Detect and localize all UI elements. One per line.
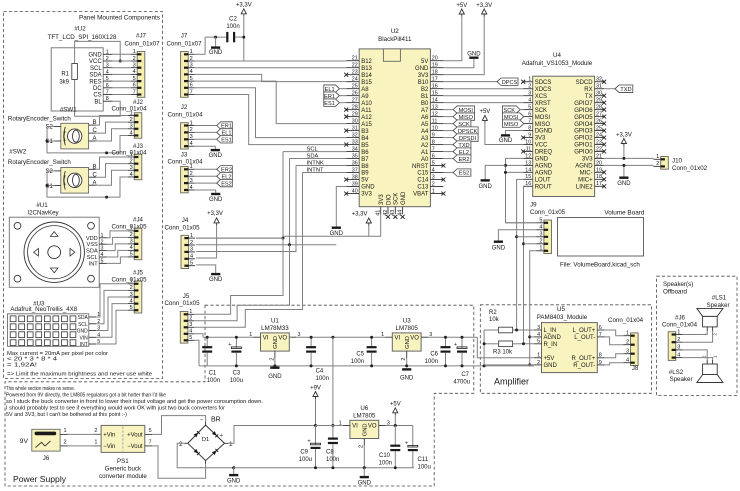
svg-text:3: 3	[190, 134, 193, 140]
svg-text:3: 3	[130, 165, 133, 171]
svg-text:22: 22	[596, 146, 602, 152]
svg-text:100u: 100u	[418, 464, 431, 470]
svg-text:A5: A5	[421, 122, 429, 128]
svg-text:D1: D1	[202, 437, 209, 443]
svg-text:SCL: SCL	[90, 66, 102, 72]
svg-text:100n: 100n	[226, 24, 239, 30]
svg-text:1: 1	[528, 77, 531, 83]
svg-text:R_OUT-: R_OUT-	[573, 363, 595, 369]
ground J4	[196, 265, 223, 283]
svg-text:+Vin: +Vin	[103, 433, 115, 439]
svg-text:8: 8	[599, 353, 602, 359]
svg-text:#SW2: #SW2	[9, 149, 26, 156]
wire INTNK drop	[196, 166, 296, 252]
junction R gnd	[483, 364, 486, 367]
svg-text:13: 13	[432, 105, 438, 111]
svg-text:16: 16	[525, 181, 531, 187]
svg-text:10: 10	[432, 126, 438, 132]
svg-text:C7: C7	[461, 372, 469, 378]
svg-text:TX: TX	[585, 94, 593, 100]
junction C5 bottom	[370, 364, 373, 367]
svg-text:32: 32	[596, 77, 602, 83]
svg-text:B5: B5	[361, 143, 369, 149]
svg-text:10: 10	[525, 139, 531, 145]
wire TFT to #J7	[113, 54, 131, 94]
svg-text:2: 2	[189, 316, 192, 322]
wire J7-2 3V3 rail	[195, 60, 347, 62]
svg-text:3: 3	[537, 325, 540, 331]
speaker #LS1	[697, 295, 730, 336]
svg-text:32: 32	[352, 132, 358, 138]
svg-text:12: 12	[432, 112, 438, 118]
svg-text:Conn_01x04: Conn_01x04	[662, 321, 698, 328]
wire INTNT drop	[302, 173, 304, 258]
note power section	[6, 386, 263, 418]
capacitor C7	[453, 337, 470, 385]
global label SCK U4	[502, 106, 523, 114]
wire R_OUT-	[605, 363, 624, 365]
svg-text:Power Supply: Power Supply	[13, 474, 67, 484]
wire R_OUT+	[605, 354, 624, 358]
wire 9V to PS1 p2	[68, 445, 102, 447]
global label ER2	[195, 166, 233, 174]
section box Speaker(s) Offboard	[657, 276, 738, 395]
svg-text:L_OUT+: L_OUT+	[572, 328, 595, 334]
svg-text:15: 15	[432, 91, 438, 97]
svg-text:20: 20	[596, 160, 602, 166]
svg-text:14: 14	[432, 98, 438, 104]
svg-text:2: 2	[656, 161, 659, 167]
svg-text:B14: B14	[361, 73, 372, 79]
svg-text:GPIO3: GPIO3	[574, 129, 593, 135]
svg-text:#U2: #U2	[74, 26, 86, 33]
wire SW2-C	[96, 164, 128, 178]
svg-text:2: 2	[190, 171, 193, 177]
junction C2 right	[242, 36, 245, 39]
svg-text:GND: GND	[405, 336, 411, 349]
svg-text:GPIO5: GPIO5	[574, 115, 593, 121]
svg-text:#J4: #J4	[133, 217, 144, 224]
svg-text:Conn_01x07: Conn_01x07	[166, 40, 202, 47]
svg-text:2: 2	[626, 340, 629, 346]
junction U4 agnd2	[504, 171, 507, 174]
junction SDA J4	[288, 243, 291, 246]
wire XDCS	[443, 88, 523, 90]
svg-text:3: 3	[130, 239, 133, 245]
svg-text:GND: GND	[273, 336, 279, 349]
svg-text:15: 15	[525, 174, 531, 180]
svg-text:VBAT: VBAT	[413, 192, 429, 198]
svg-text:SDA: SDA	[307, 153, 319, 159]
svg-text:+: +	[220, 433, 223, 439]
svg-text:2: 2	[64, 440, 67, 446]
svg-text:26: 26	[596, 118, 602, 124]
svg-text:4: 4	[106, 69, 109, 75]
wire 3V3 row link	[283, 235, 369, 237]
svg-text:+5V: +5V	[390, 402, 401, 408]
regulator U6 LM7805	[339, 405, 390, 448]
svg-text:4: 4	[626, 358, 629, 364]
wire 9V to PS1 p1	[68, 433, 102, 435]
svg-text:7: 7	[149, 440, 152, 446]
svg-text:29: 29	[352, 112, 358, 118]
svg-text:GND: GND	[209, 153, 223, 159]
junction C4 bottom	[310, 364, 313, 367]
svg-text:VI: VI	[352, 424, 358, 430]
svg-text:21: 21	[352, 56, 358, 62]
svg-text:7: 7	[190, 89, 193, 95]
rotary encoder #SW1	[8, 106, 98, 149]
microcontroller U2 BlackPill411	[344, 28, 445, 219]
ground near C2	[209, 37, 223, 56]
svg-text:Conn_01x02: Conn_01x02	[672, 165, 708, 172]
wire LS1 p1	[683, 331, 708, 335]
svg-text:SDA: SDA	[89, 73, 101, 79]
svg-text:ES2: ES2	[221, 181, 232, 187]
svg-text:MISO: MISO	[504, 122, 519, 128]
svg-text:GND: GND	[492, 245, 506, 251]
junction amp gnd	[528, 363, 531, 366]
svg-text:GPIO4: GPIO4	[574, 122, 593, 128]
svg-text:+5V: +5V	[456, 3, 467, 9]
global label ER2 U2	[443, 155, 471, 163]
svg-text:File: VolumeBoard.kicad_sch: File: VolumeBoard.kicad_sch	[560, 262, 640, 269]
svg-text:GND: GND	[268, 374, 282, 380]
capacitor C11	[405, 426, 431, 471]
svg-text:+Vout: +Vout	[127, 433, 143, 439]
junction J10 gnd	[622, 164, 625, 167]
wire PS1 -Vout to bridge	[152, 446, 205, 478]
svg-text:+5V: +5V	[479, 109, 490, 115]
wire 9V row	[316, 425, 343, 427]
svg-text:2: 2	[677, 337, 680, 343]
net label SDA	[290, 153, 347, 159]
svg-text:Offboard: Offboard	[663, 289, 688, 296]
svg-text:RX: RX	[584, 87, 592, 93]
wire U4 gnd bus	[506, 158, 537, 222]
junction C2 left	[214, 36, 217, 39]
svg-text:VCC: VCC	[89, 59, 102, 65]
wire 5V to amp	[477, 337, 534, 358]
svg-text:+3,3V: +3,3V	[476, 3, 492, 9]
net label INTNT	[303, 167, 347, 173]
svg-text:3: 3	[106, 63, 109, 69]
svg-text:GPIO1: GPIO1	[574, 143, 593, 149]
svg-text:Generic buck: Generic buck	[105, 465, 142, 472]
global label EL1 at U2	[324, 85, 346, 93]
audio decoder U4 Adafruit_VS1053_Module	[521, 52, 606, 197]
svg-text:4: 4	[189, 329, 192, 335]
svg-text:INTNK: INTNK	[307, 160, 325, 166]
wire LS2 p2	[683, 358, 713, 360]
svg-text:B15: B15	[361, 80, 372, 86]
svg-text:RotaryEncoder_Switch: RotaryEncoder_Switch	[8, 116, 71, 123]
wire PS1 +Vout to bridge	[152, 416, 205, 435]
svg-text:2: 2	[94, 428, 97, 434]
global label MOSI U2	[443, 106, 474, 114]
svg-text:J8: J8	[632, 365, 639, 372]
wire SW1 common	[47, 127, 128, 153]
wire J7-1 gnd riser	[195, 37, 205, 54]
wire SCL to J5	[195, 238, 283, 314]
svg-text:5V: 5V	[421, 59, 428, 65]
svg-text:Volume Board: Volume Board	[604, 210, 645, 217]
connector #J2	[111, 99, 147, 138]
svg-text:SDCD: SDCD	[576, 80, 594, 86]
global label ES2	[195, 179, 233, 187]
svg-text:24: 24	[352, 77, 358, 83]
svg-text:GPIO7: GPIO7	[574, 101, 593, 107]
svg-text:+: +	[454, 342, 457, 348]
svg-text:18: 18	[596, 174, 602, 180]
wire 3V3 J4 row	[196, 237, 283, 239]
svg-text:U4: U4	[553, 52, 561, 59]
svg-text:#J6: #J6	[675, 314, 686, 321]
svg-text:6: 6	[528, 112, 531, 118]
capacitor C10	[379, 426, 401, 470]
junction 5V c10	[394, 424, 397, 427]
svg-text:Conn_01x04: Conn_01x04	[167, 158, 203, 165]
svg-text:= 1,92A!: = 1,92A!	[7, 362, 37, 368]
connector #J4	[111, 217, 147, 260]
svg-text:1: 1	[190, 233, 193, 239]
wire XRST	[443, 102, 523, 104]
svg-text:35: 35	[352, 153, 358, 159]
wire J7-5	[195, 81, 347, 124]
junction amp agnd	[528, 335, 534, 338]
svg-text:R_OUT+: R_OUT+	[571, 356, 595, 362]
svg-text:5: 5	[189, 335, 192, 341]
svg-text:5: 5	[537, 339, 540, 345]
svg-text:VO: VO	[278, 335, 287, 341]
svg-text:Panel Mounted Components: Panel Mounted Components	[79, 15, 160, 22]
svg-text:GND: GND	[358, 481, 372, 487]
svg-text:J2: J2	[181, 104, 188, 111]
svg-text:6: 6	[190, 83, 193, 89]
svg-text:7: 7	[133, 89, 136, 95]
svg-text:B1: B1	[421, 94, 429, 100]
power +9V mid	[310, 385, 321, 425]
svg-text:9: 9	[432, 132, 435, 138]
svg-text:2: 2	[539, 239, 542, 245]
svg-text:~: ~	[200, 466, 203, 472]
svg-text:16: 16	[432, 84, 438, 90]
wire J7-4	[195, 74, 347, 81]
ground U2 pin39	[330, 187, 347, 237]
svg-text:25: 25	[596, 125, 602, 131]
svg-text:I should probably test to see: I should probably test to see if everyth…	[6, 406, 225, 412]
svg-text:Conn_01x05: Conn_01x05	[530, 209, 566, 216]
wire U4 3V3 out	[604, 157, 653, 159]
svg-text:10k: 10k	[489, 317, 500, 323]
wire bridge plus to 9V row	[228, 426, 341, 444]
svg-text:Speaker: Speaker	[706, 302, 729, 309]
svg-text:2: 2	[133, 56, 136, 62]
svg-text:2: 2	[130, 285, 133, 291]
svg-text:GND: GND	[479, 184, 493, 190]
svg-text:100n: 100n	[316, 376, 329, 382]
svg-text:GND: GND	[499, 138, 513, 144]
svg-text:1: 1	[189, 309, 192, 315]
junction rail 9V feed	[331, 336, 334, 339]
svg-text:C8: C8	[326, 450, 334, 456]
svg-text:GND: GND	[363, 423, 369, 436]
junction C6 top	[444, 336, 447, 339]
svg-text:3V3: 3V3	[361, 192, 372, 198]
svg-text:3: 3	[528, 91, 531, 97]
svg-text:DC: DC	[93, 86, 102, 92]
svg-text:MOSI: MOSI	[535, 115, 551, 121]
resistor R1	[59, 64, 77, 86]
power +5V U4	[479, 109, 523, 144]
svg-text:4: 4	[539, 225, 542, 231]
svg-text:J9: J9	[530, 202, 537, 209]
connector #J6 speakers	[662, 314, 698, 360]
svg-text:L_OUT-: L_OUT-	[574, 335, 595, 341]
svg-text:3: 3	[432, 174, 435, 180]
svg-text:3: 3	[626, 349, 629, 355]
svg-text:B13: B13	[361, 66, 372, 72]
svg-text:5V and 3V3, but I can't be bot: 5V and 3V3, but I can't be bothered at t…	[6, 412, 127, 418]
wire Trellis to #J5	[96, 284, 128, 344]
global label TXD U2	[443, 141, 471, 149]
svg-text:31: 31	[596, 84, 602, 90]
svg-text:9V: 9V	[20, 438, 29, 445]
svg-text:INT: INT	[89, 261, 99, 267]
svg-text:4: 4	[432, 167, 435, 173]
svg-text:+3,3V: +3,3V	[236, 3, 252, 9]
svg-text:L_IN: L_IN	[544, 328, 557, 334]
connector J2	[167, 104, 203, 149]
global label ER1 at U2	[324, 92, 346, 100]
svg-text:100n: 100n	[207, 378, 220, 384]
power +3,3V J4	[196, 211, 223, 258]
svg-text:11: 11	[432, 119, 438, 125]
svg-text:GPIO6: GPIO6	[574, 108, 593, 114]
svg-text:7: 7	[528, 118, 531, 124]
svg-text:GND: GND	[227, 479, 241, 485]
svg-text:2: 2	[130, 232, 133, 238]
junction C7 bottom	[461, 364, 464, 367]
svg-text:TXD: TXD	[620, 87, 631, 93]
svg-text:100u: 100u	[230, 378, 243, 384]
svg-text:26: 26	[352, 91, 358, 97]
svg-text:C13: C13	[417, 185, 429, 191]
power +3,3V J10	[616, 132, 632, 158]
svg-text:1: 1	[677, 329, 680, 335]
svg-text:GND: GND	[361, 185, 375, 191]
capacitor C3	[228, 337, 243, 384]
svg-text:VI: VI	[395, 335, 401, 341]
wire LS1 p2	[683, 331, 713, 342]
svg-text:GND: GND	[77, 329, 89, 335]
wire SW1-C	[96, 122, 128, 133]
svg-text:BL: BL	[94, 99, 102, 105]
svg-text:C4: C4	[316, 369, 324, 375]
svg-text:33: 33	[352, 139, 358, 145]
svg-text:40: 40	[352, 188, 358, 194]
svg-text:GPIO2: GPIO2	[574, 136, 593, 142]
svg-text:AGND: AGND	[544, 335, 562, 341]
svg-text:31: 31	[352, 126, 358, 132]
svg-text:1: 1	[101, 233, 104, 239]
svg-text:J10: J10	[672, 158, 683, 165]
svg-text:B3: B3	[361, 129, 369, 135]
capacitor C4	[306, 337, 329, 382]
svg-text:A8: A8	[361, 87, 369, 93]
junction C6 bottom	[444, 364, 447, 367]
svg-text:5: 5	[190, 261, 193, 267]
svg-text:100n: 100n	[351, 359, 364, 365]
svg-text:43: 43	[390, 210, 396, 216]
svg-text:ROUT: ROUT	[535, 185, 552, 191]
svg-text:6: 6	[599, 325, 602, 331]
svg-text:GND: GND	[535, 157, 549, 163]
ground U2 pin19 inverted	[443, 51, 481, 67]
svg-text:1: 1	[106, 49, 109, 55]
svg-text:NRST: NRST	[412, 164, 429, 170]
svg-text:−Vin: −Vin	[103, 444, 115, 450]
capacitor C1	[202, 337, 220, 384]
svg-text:1: 1	[94, 440, 97, 446]
svg-text:8: 8	[432, 139, 435, 145]
svg-text:MIC-: MIC-	[580, 171, 593, 177]
svg-text:9: 9	[528, 132, 531, 138]
svg-text:MISO: MISO	[535, 122, 551, 128]
wire J9 pin5 agnd	[506, 222, 537, 224]
svg-text:A11: A11	[361, 108, 372, 114]
svg-text:2: 2	[537, 360, 540, 366]
svg-text:R_IN: R_IN	[544, 342, 558, 348]
svg-text:C6: C6	[430, 352, 438, 358]
connector J3	[167, 152, 203, 193]
svg-text:DGND: DGND	[535, 129, 553, 135]
svg-text:#SW1: #SW1	[60, 106, 77, 113]
wire J7-3	[195, 67, 347, 69]
wire SDA to J5	[195, 245, 290, 321]
svg-text:2: 2	[190, 56, 193, 62]
svg-text:GND: GND	[400, 376, 414, 382]
svg-text:42: 42	[383, 210, 389, 216]
wire SW2 common	[47, 171, 128, 197]
hierarchical sheet Volume Board	[558, 210, 645, 269]
power +3,3V	[236, 3, 252, 17]
junction C7 top	[461, 336, 464, 339]
svg-text:INT: INT	[80, 342, 88, 348]
connector J10	[654, 154, 708, 172]
svg-text:18: 18	[432, 70, 438, 76]
svg-text:3: 3	[190, 63, 193, 69]
junction J10 3v3	[622, 157, 625, 160]
svg-text:SCK: SCK	[535, 108, 547, 114]
resistor R3	[484, 341, 523, 355]
svg-text:C1: C1	[209, 371, 217, 377]
svg-text:30: 30	[596, 91, 602, 97]
ground J2	[195, 146, 223, 159]
svg-text:1: 1	[539, 246, 542, 252]
wire rail to U6	[332, 337, 334, 425]
wire LS2 p1	[683, 350, 708, 360]
svg-text:B10: B10	[418, 80, 429, 86]
svg-text:XDCS: XDCS	[535, 87, 552, 93]
svg-text:A4: A4	[421, 129, 429, 135]
svg-text:GND: GND	[209, 50, 223, 56]
svg-text:SCL: SCL	[87, 255, 98, 261]
junction VCC	[119, 60, 122, 63]
wire J7-7	[195, 95, 347, 145]
section box Amplifier	[480, 305, 651, 394]
svg-text:1: 1	[229, 441, 233, 448]
